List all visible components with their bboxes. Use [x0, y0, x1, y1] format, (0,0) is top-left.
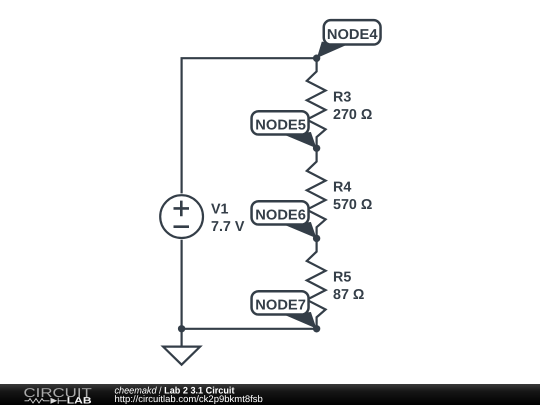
junction dot R3/R4: [313, 145, 320, 152]
wire top-left loop: V1 top to R3 top: [182, 58, 317, 193]
logo diode triangle: [51, 398, 58, 404]
svg-text:270 Ω: 270 Ω: [333, 107, 372, 123]
resistor R4: [307, 148, 326, 238]
node NODE6 label: [252, 201, 309, 224]
svg-text:NODE5: NODE5: [255, 118, 306, 134]
junction dot bottom right: [313, 325, 320, 332]
junction dot R4/R5: [313, 235, 320, 242]
footer bar: [0, 384, 540, 405]
node NODE6 tail: [284, 222, 317, 238]
node NODE4 tail: [317, 42, 346, 58]
V1 plus/minus marks: [174, 201, 190, 227]
junction dot top: [313, 55, 320, 62]
svg-text:R5: R5: [333, 270, 351, 286]
svg-text:NODE4: NODE4: [327, 27, 378, 43]
resistor R3: [307, 58, 326, 148]
svg-text:R3: R3: [333, 89, 351, 105]
node NODE7 tail: [284, 312, 317, 329]
ground: [181, 329, 183, 347]
svg-text:7.7 V: 7.7 V: [211, 219, 245, 235]
svg-text:LAB: LAB: [67, 395, 92, 405]
junction dot bottom left: [178, 325, 185, 332]
node NODE4 label: [324, 20, 381, 44]
wire V1 bottom to ground corner and to R5 bottom: [182, 240, 317, 329]
svg-text:87 Ω: 87 Ω: [333, 287, 364, 303]
node NODE7 label: [252, 291, 309, 314]
logo schematic line: zigzag + diode: [25, 398, 67, 404]
svg-text:R4: R4: [333, 180, 351, 196]
svg-text:NODE7: NODE7: [255, 298, 306, 314]
node NODE5 tail: [284, 132, 317, 148]
resistor R5: [307, 238, 326, 328]
svg-text:NODE6: NODE6: [255, 208, 306, 224]
node NODE5 label: [252, 111, 309, 134]
voltage source V1: [160, 195, 203, 238]
svg-text:570 Ω: 570 Ω: [333, 197, 372, 213]
svg-text:V1: V1: [211, 202, 229, 218]
svg-text:http://circuitlab.com/ck2p9bkm: http://circuitlab.com/ck2p9bkmt8fsb: [115, 394, 263, 405]
